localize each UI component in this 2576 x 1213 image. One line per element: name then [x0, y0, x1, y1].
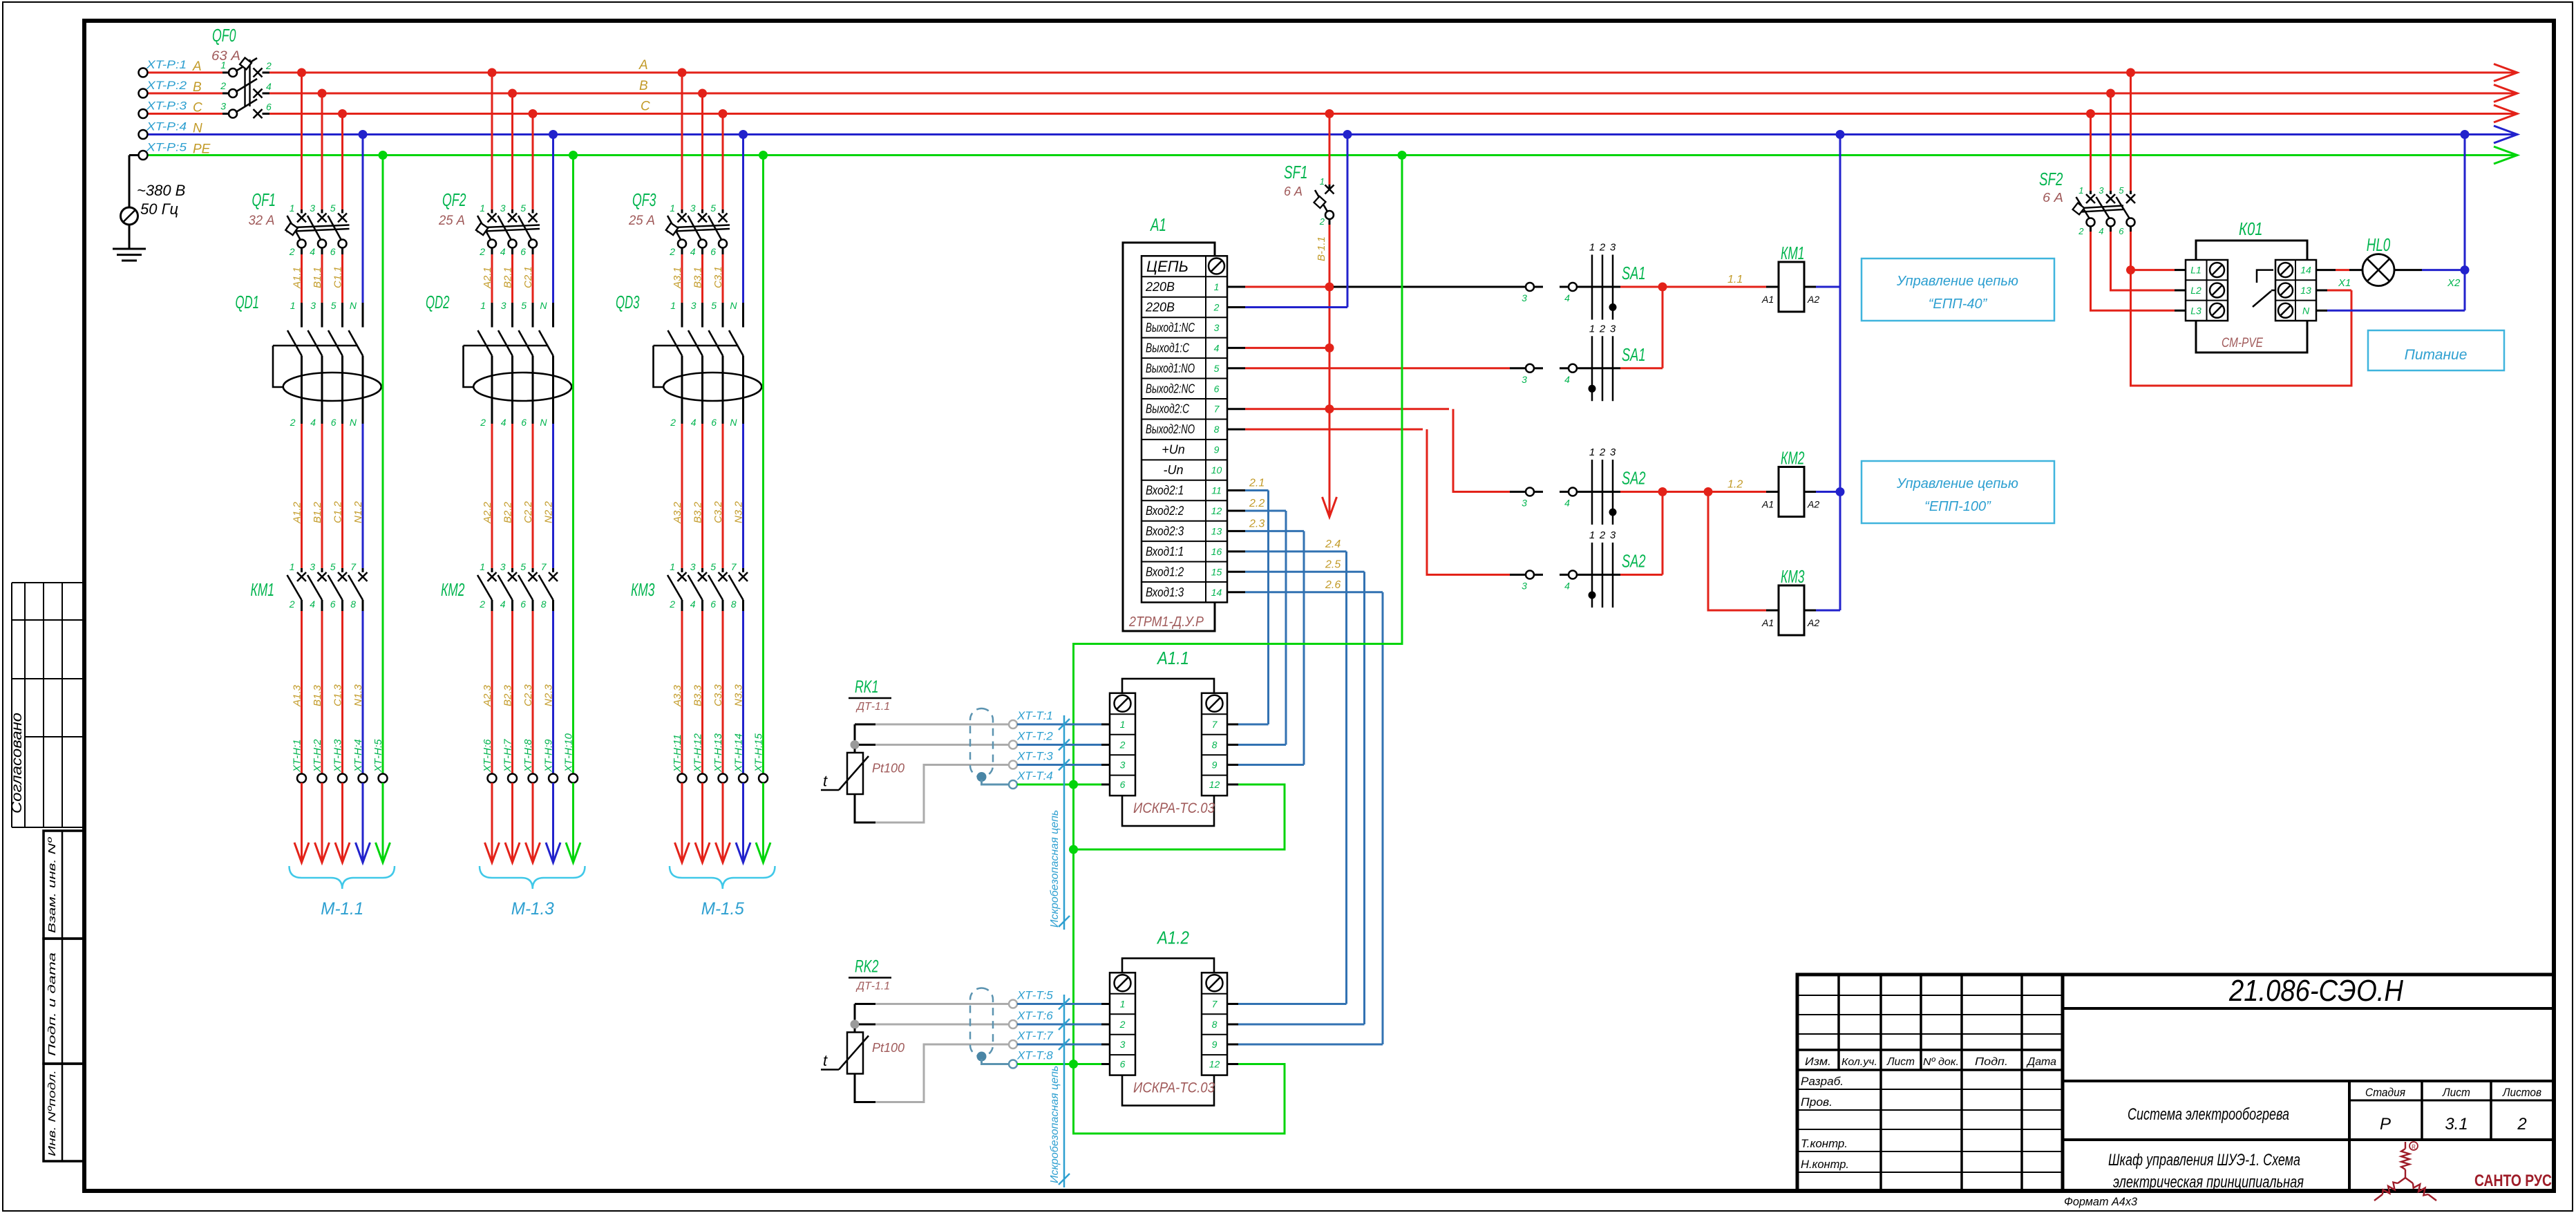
svg-text:ЦЕПЬ: ЦЕПЬ	[1146, 258, 1188, 275]
svg-text:21.086-СЭО.Н: 21.086-СЭО.Н	[2228, 974, 2403, 1008]
svg-text:6: 6	[266, 102, 272, 113]
wire XT-T:1 to module pin 1	[1017, 724, 1101, 726]
junction dot earth / XT-T:8	[1069, 1060, 1078, 1069]
svg-text:25 А: 25 А	[628, 214, 655, 228]
wire RK1 lead 3	[855, 794, 875, 822]
wire QF3 to QD3 (А3.1)	[681, 254, 683, 303]
junction dot HL0/N	[2461, 265, 2470, 274]
wire SA1 row1 to KM1	[1620, 286, 1663, 288]
junction dot KM3 branch	[1704, 487, 1713, 496]
svg-text:2: 2	[2078, 226, 2084, 236]
connector contact 3 (SA2)	[1526, 571, 1534, 579]
svg-text:QD2: QD2	[426, 292, 450, 312]
svg-text:Лист: Лист	[2442, 1086, 2470, 1099]
svg-text:+Un: +Un	[1162, 443, 1185, 457]
svg-text:N: N	[350, 417, 357, 428]
svg-text:Искробезопасная цепь: Искробезопасная цепь	[1049, 1066, 1061, 1183]
contactor contacts KM3	[667, 572, 748, 611]
svg-text:ХТ-Т:6: ХТ-Т:6	[1016, 1009, 1053, 1022]
svg-text:A2: A2	[1807, 294, 1819, 305]
svg-text:К01: К01	[2239, 218, 2263, 239]
module А1.1 left terminals	[1110, 693, 1135, 796]
bus B arrowhead	[2494, 85, 2517, 102]
wire QF1 to QD1 (В1.1)	[321, 254, 323, 303]
svg-text:3: 3	[691, 300, 697, 311]
svg-text:8: 8	[1214, 424, 1220, 435]
svg-text:2.1: 2.1	[1249, 478, 1265, 489]
wire A1 pin1 to SA1	[1227, 286, 1245, 288]
wire QF3 to QD3 (С3.1)	[722, 254, 724, 303]
contactor coil KM2	[1766, 491, 1779, 493]
K01 input terminals L1 L2 L3	[2186, 260, 2228, 321]
svg-text:3: 3	[310, 561, 315, 572]
svg-text:QD3: QD3	[616, 292, 640, 312]
svg-text:4: 4	[500, 599, 506, 610]
junction dots buses QF3 tap	[678, 68, 768, 160]
svg-text:12: 12	[1211, 505, 1222, 516]
pin numbers KM1 contacts	[289, 561, 357, 610]
junction dot PE bus / measuring earth	[1398, 151, 1407, 160]
svg-text:QF1: QF1	[252, 189, 276, 210]
title block frame	[1797, 975, 2554, 1191]
svg-text:3: 3	[1120, 1039, 1126, 1050]
load arrow 4	[356, 843, 370, 863]
contactor coil KM1	[1766, 286, 1779, 288]
svg-text:2.4: 2.4	[1325, 538, 1341, 550]
terminal XT-H:14	[739, 774, 748, 783]
wire A1 pin13 to A1.1 pin9 (2.3)	[1227, 530, 1245, 532]
svg-text:Pt100: Pt100	[872, 1041, 905, 1055]
svg-text:8: 8	[541, 599, 547, 610]
pin numbers QF2	[479, 203, 526, 257]
svg-text:В1.3: В1.3	[312, 684, 323, 706]
wire KM2 to XT-H:6 (А2.3)	[491, 611, 493, 774]
svg-text:5: 5	[710, 203, 716, 214]
svg-text:8: 8	[1212, 740, 1218, 751]
svg-text:N: N	[2302, 305, 2310, 316]
svg-text:А3.2: А3.2	[672, 501, 683, 524]
svg-text:4: 4	[310, 599, 315, 610]
brace group М-1.5	[670, 866, 775, 889]
svg-text:Питание: Питание	[2405, 347, 2468, 363]
svg-text:2: 2	[1119, 740, 1126, 751]
wire A1 pin2 to N bus	[1227, 306, 1245, 308]
svg-text:8: 8	[350, 599, 356, 610]
svg-text:электрическая принципиальная: электрическая принципиальная	[2113, 1173, 2304, 1192]
svg-text:XT-P:3: XT-P:3	[146, 100, 187, 113]
svg-text:А1.1: А1.1	[1156, 648, 1189, 668]
wire bus phase C	[147, 113, 222, 115]
svg-text:Вход1:3: Вход1:3	[1146, 585, 1184, 599]
wire XT-H:11 to load	[681, 783, 683, 861]
wire bus N to QD1	[362, 135, 364, 303]
wire KM3 to XT-H:12 (В3.3)	[701, 611, 703, 774]
svg-text:Х2: Х2	[2447, 277, 2461, 289]
connector contact 4 (SA2)	[1560, 574, 1569, 576]
svg-text:1: 1	[220, 59, 226, 70]
wire branch to KM3	[1708, 492, 1766, 611]
svg-text:XT-P:2: XT-P:2	[146, 79, 187, 92]
svg-text:ХТ-Н:3: ХТ-Н:3	[332, 739, 344, 773]
svg-text:А3.1: А3.1	[672, 267, 683, 289]
wire C bus to SF2 pin1	[2090, 114, 2092, 191]
terminal XT-H:11	[678, 774, 687, 783]
svg-text:3: 3	[1522, 581, 1527, 592]
svg-text:1.2: 1.2	[1727, 479, 1743, 491]
wire bus А to QF1 pin 1	[301, 73, 303, 209]
wire to L1	[2131, 269, 2175, 271]
wire XT-T:8 to module pin 6	[1017, 1063, 1101, 1065]
svg-text:6: 6	[710, 246, 716, 257]
svg-text:QF0: QF0	[212, 25, 236, 46]
svg-text:Н.контр.: Н.контр.	[1801, 1158, 1849, 1171]
wire bus PE to XT-H:15	[762, 156, 764, 774]
wire bus N to QD3	[742, 135, 744, 303]
node labels A B C (mid-run)	[638, 58, 650, 114]
svg-text:3: 3	[501, 300, 506, 311]
terminal XT-T:4	[1009, 780, 1017, 789]
svg-text:Вход1:2: Вход1:2	[1146, 565, 1184, 579]
contactor contacts KM2	[477, 572, 558, 611]
svg-text:Дата: Дата	[2026, 1056, 2056, 1068]
brace group М-1.1	[290, 866, 395, 889]
svg-text:В: В	[193, 80, 202, 95]
svg-text:КМ1: КМ1	[1781, 243, 1805, 263]
terminal XT-H:15	[759, 774, 768, 783]
svg-text:QF2: QF2	[442, 189, 466, 210]
svg-text:3: 3	[310, 300, 316, 311]
svg-text:Система электрообогрева: Система электрообогрева	[2128, 1105, 2289, 1124]
svg-text:Формат А4х3: Формат А4х3	[2064, 1195, 2138, 1208]
terminal XT-H:5	[379, 774, 388, 783]
svg-text:9: 9	[1212, 760, 1218, 771]
svg-text:SA1: SA1	[1622, 344, 1646, 365]
svg-text:3.1: 3.1	[2445, 1115, 2468, 1134]
svg-text:4: 4	[500, 246, 506, 257]
svg-text:1: 1	[1589, 529, 1595, 541]
wire bus PE	[147, 154, 2516, 156]
terminal XT-H:10	[569, 774, 578, 783]
svg-text:2: 2	[289, 246, 295, 257]
svg-text:16: 16	[1211, 546, 1222, 557]
svg-text:4: 4	[1564, 498, 1570, 509]
wire SF2 pin2 to K01 L3	[2091, 232, 2175, 310]
svg-text:4: 4	[310, 246, 315, 257]
wire B bus to SF2 pin3	[2110, 93, 2112, 191]
junction dots buses QF1 tap	[297, 68, 388, 160]
svg-text:Nº док.: Nº док.	[1923, 1056, 1959, 1068]
svg-text:ХТ-Н:1: ХТ-Н:1	[292, 739, 303, 773]
svg-text:В2.1: В2.1	[502, 267, 514, 288]
svg-text:25 А: 25 А	[438, 214, 465, 228]
svg-text:А: А	[192, 59, 202, 74]
svg-text:Листов: Листов	[2502, 1086, 2541, 1099]
wire KM2 to XT-H:9 (N2.3)	[552, 611, 554, 774]
junction dot KM2 coil node	[1836, 487, 1845, 496]
svg-text:КМ1: КМ1	[251, 579, 275, 600]
svg-text:ХТ-Т:8: ХТ-Т:8	[1016, 1049, 1053, 1062]
wire A1 pin11 to A1.1 pin7 (2.1)	[1227, 489, 1245, 491]
svg-text:ИСКРА-ТС.03: ИСКРА-ТС.03	[1133, 800, 1215, 816]
wire QD2 to KM2 (С2.2)	[532, 420, 534, 424]
svg-text:7: 7	[541, 561, 547, 572]
RTD Pt100 (RK2)	[847, 1033, 863, 1074]
svg-text:1: 1	[290, 203, 295, 214]
wire bus PE to XT-H:10	[572, 156, 574, 774]
junction dot SF1/pin1 net	[1325, 283, 1334, 292]
connector contact 4 (SA1)	[1560, 286, 1569, 288]
svg-text:С2.1: С2.1	[522, 266, 534, 288]
pin numbers SF2	[2078, 185, 2124, 236]
svg-text:7: 7	[350, 561, 357, 572]
svg-text:С1.2: С1.2	[332, 501, 344, 523]
wire SF2 pin6 to K01 L1	[2130, 232, 2132, 270]
wire XT-H:6 to load	[491, 783, 493, 861]
junction dot earth / A1.1 loop	[1069, 845, 1078, 854]
wire QD2 to KM2 (В2.2)	[511, 420, 513, 424]
label ~380 В 50 Гц	[137, 182, 185, 218]
svg-text:3: 3	[1522, 374, 1527, 385]
svg-text:ДТ-1.1: ДТ-1.1	[855, 701, 890, 713]
terminal XT-H:8	[529, 774, 538, 783]
svg-text:4: 4	[310, 417, 316, 428]
load arrow 2	[315, 843, 330, 863]
svg-text:2: 2	[290, 417, 296, 428]
svg-text:С3.3: С3.3	[712, 684, 724, 706]
svg-text:6: 6	[710, 599, 716, 610]
svg-text:50 Гц: 50 Гц	[140, 200, 178, 218]
circuit breaker QF0	[222, 58, 269, 118]
wire QF1 to QD1 (С1.1)	[341, 254, 343, 303]
gray junction dot RK2	[851, 1020, 860, 1029]
load arrow 1	[294, 843, 309, 863]
svg-text:N1.3: N1.3	[352, 684, 364, 706]
load arrow 13	[716, 843, 730, 863]
svg-text:L3: L3	[2190, 305, 2201, 316]
wire XT-H:3 to load	[341, 783, 343, 861]
svg-text:5: 5	[520, 203, 526, 214]
svg-text:1.1: 1.1	[1727, 274, 1743, 285]
svg-text:А1.3: А1.3	[292, 684, 303, 707]
svg-text:SA1: SA1	[1622, 263, 1646, 283]
svg-text:t: t	[823, 1052, 828, 1069]
selector switch SA1	[1589, 242, 1617, 320]
svg-text:ХТ-Н:5: ХТ-Н:5	[372, 739, 384, 773]
svg-text:С3.2: С3.2	[712, 501, 724, 523]
svg-text:3: 3	[690, 561, 696, 572]
svg-text:N3.3: N3.3	[733, 684, 745, 706]
svg-text:Изм.: Изм.	[1805, 1056, 1831, 1068]
svg-text:Вход2:2: Вход2:2	[1146, 504, 1184, 518]
svg-text:М-1.1: М-1.1	[321, 899, 363, 919]
terminal XT-H:2	[318, 774, 327, 783]
wire XT-H:8 to load	[532, 783, 534, 861]
RCD QD3	[654, 330, 762, 420]
wire SA2 row2 link up	[1620, 574, 1663, 576]
svg-text:Т.контр.: Т.контр.	[1801, 1137, 1848, 1150]
wire QD1 to KM1 (В1.2)	[321, 420, 323, 424]
wire KM3 to XT-H:14 (N3.3)	[742, 611, 744, 774]
wire KM3 to XT-H:13 (С3.3)	[722, 611, 724, 774]
svg-text:Выход2:NC: Выход2:NC	[1146, 382, 1195, 395]
A1 table rows and pin numbers	[1145, 280, 1222, 599]
terminal XT-H:6	[488, 774, 497, 783]
terminal XT-H:9	[549, 774, 558, 783]
wire SF2 pin4 to K01 L2	[2111, 232, 2175, 290]
svg-text:6: 6	[520, 599, 526, 610]
wire bus N	[147, 133, 2516, 135]
wire bus В to QF1 pin 3	[321, 93, 323, 209]
svg-text:КМ2: КМ2	[441, 579, 465, 600]
svg-text:3: 3	[690, 203, 696, 214]
selector switch SA1	[1589, 323, 1616, 401]
svg-text:2: 2	[479, 246, 485, 257]
svg-text:ХТ-Н:8: ХТ-Н:8	[522, 739, 534, 773]
svg-text:220В: 220В	[1145, 280, 1175, 294]
svg-text:QF3: QF3	[632, 189, 656, 210]
svg-text:1: 1	[2078, 185, 2083, 196]
svg-text:КМ3: КМ3	[631, 579, 655, 600]
svg-text:ХТ-Т:1: ХТ-Т:1	[1016, 709, 1053, 722]
svg-text:А3.3: А3.3	[672, 684, 683, 707]
svg-text:2.2: 2.2	[1249, 498, 1265, 509]
junction dot SF1/pin7 net	[1325, 404, 1334, 413]
info box ЕПП-100	[1862, 461, 2054, 523]
svg-text:В1.2: В1.2	[312, 501, 323, 523]
wire QD3 to KM3 (N3.2)	[742, 420, 744, 424]
svg-text:А1: А1	[1150, 214, 1166, 235]
shield earth dot RK2	[977, 1052, 987, 1062]
svg-text:2: 2	[1213, 301, 1220, 312]
svg-text:8: 8	[1212, 1019, 1218, 1030]
svg-text:5: 5	[521, 300, 527, 311]
svg-text:7: 7	[1214, 404, 1220, 415]
K01 output terminals 14 13 N	[2275, 260, 2316, 321]
svg-text:2: 2	[480, 417, 486, 428]
svg-text:3: 3	[1522, 498, 1527, 509]
wire bus В to QF3 pin 3	[701, 93, 703, 209]
svg-text:XT-P:5: XT-P:5	[146, 141, 187, 154]
module А1.1 right terminals	[1202, 693, 1227, 796]
svg-text:t: t	[823, 773, 828, 790]
terminal XT-H:3	[338, 774, 347, 783]
svg-text:7: 7	[1212, 999, 1218, 1010]
svg-text:В2.2: В2.2	[502, 501, 514, 523]
svg-text:3: 3	[1120, 760, 1126, 771]
load arrow 3	[335, 843, 350, 863]
svg-text:Шкаф управления ШУЭ-1. Схема: Шкаф управления ШУЭ-1. Схема	[2108, 1151, 2300, 1169]
svg-text:“ЕПП-40”: “ЕПП-40”	[1929, 297, 1988, 312]
svg-text:А2.3: А2.3	[482, 684, 493, 707]
svg-text:2: 2	[669, 599, 675, 610]
wire C bus to SF1	[1329, 114, 1331, 185]
K01 internal contact	[2257, 270, 2273, 283]
svg-text:М-1.5: М-1.5	[701, 899, 744, 919]
svg-text:Выход1:NO: Выход1:NO	[1146, 361, 1195, 375]
svg-text:1: 1	[290, 561, 295, 572]
pin numbers QF1	[289, 203, 336, 257]
svg-text:6: 6	[520, 246, 526, 257]
svg-text:В3.1: В3.1	[692, 267, 704, 288]
svg-text:В3.2: В3.2	[692, 501, 704, 523]
svg-text:XT-P:1: XT-P:1	[146, 58, 187, 71]
device A1 outer box	[1123, 243, 1215, 631]
wire bus С to QF1 pin 5	[341, 114, 343, 210]
wire XT-H:10 to load	[572, 783, 574, 861]
intrinsic safety barrier line	[1059, 715, 1070, 930]
wire A1 pin7 to SA2.1	[1227, 408, 1245, 410]
wire A1 pin14 to A1.2 pin9 (2.6)	[1227, 591, 1245, 593]
svg-text:В: В	[639, 79, 648, 93]
pin numbers KM3 contacts	[669, 561, 737, 610]
load arrow 11	[675, 843, 690, 863]
junction dot N bus / lamp circuit	[2461, 130, 2470, 139]
terminal XT-P:1	[139, 68, 148, 77]
svg-text:9: 9	[1214, 444, 1220, 455]
wire RK2 lead 2	[859, 1024, 875, 1026]
wire PE to measuring circuits	[1074, 156, 1403, 1134]
svg-text:1: 1	[290, 300, 296, 311]
svg-text:ХТ-Н:7: ХТ-Н:7	[502, 739, 514, 773]
terminal XT-H:4	[359, 774, 368, 783]
svg-text:4: 4	[690, 246, 696, 257]
wire XT-T:6 to module pin 2	[1017, 1024, 1101, 1026]
wire KM2 to XT-H:7 (В2.3)	[511, 611, 513, 774]
svg-text:ХТ-Н:10: ХТ-Н:10	[563, 733, 575, 773]
wire A1 pin5 to SA1.2	[1227, 367, 1245, 369]
wire QD3 to KM3 (С3.2)	[722, 420, 724, 424]
svg-text:5: 5	[330, 561, 336, 572]
svg-text:-Un: -Un	[1163, 463, 1183, 477]
svg-text:5: 5	[1214, 363, 1220, 374]
svg-text:RK2: RK2	[855, 957, 879, 977]
svg-text:Согласовано: Согласовано	[9, 713, 25, 814]
svg-text:SA2: SA2	[1622, 551, 1646, 572]
svg-text:5: 5	[710, 561, 716, 572]
svg-text:4: 4	[266, 81, 272, 92]
svg-text:N: N	[193, 122, 202, 136]
circuit breaker QF1	[285, 214, 349, 255]
svg-text:КМ3: КМ3	[1781, 566, 1805, 587]
bus PE arrowhead	[2494, 147, 2517, 164]
wire XT-H:12 to load	[701, 783, 703, 861]
svg-text:САНТО РУС: САНТО РУС	[2474, 1172, 2552, 1190]
contactor contacts KM1	[287, 572, 368, 611]
wire QD2 to KM2 (А2.2)	[491, 420, 493, 424]
svg-text:N: N	[730, 300, 737, 311]
svg-text:14: 14	[1211, 587, 1222, 598]
wire RK1 lead 2	[859, 744, 875, 746]
wire bus PE to XT-H:5	[382, 156, 384, 774]
svg-text:ХТ-Н:12: ХТ-Н:12	[692, 733, 704, 773]
wire bus А to QF2 pin 1	[491, 73, 493, 209]
svg-text:2: 2	[1599, 446, 1606, 458]
terminal XT-P:2	[139, 89, 148, 98]
wire source to ground	[129, 225, 131, 249]
svg-text:SF1: SF1	[1284, 162, 1308, 182]
svg-text:Управление цепью: Управление цепью	[1896, 476, 2018, 491]
pin numbers QF0	[220, 59, 272, 113]
wire SA1 row2 link up	[1620, 367, 1663, 369]
wire bus N to QD2	[552, 135, 554, 303]
wire XT-H:15 to load	[762, 783, 764, 861]
svg-text:6 А: 6 А	[1284, 185, 1303, 198]
svg-text:4: 4	[690, 599, 696, 610]
svg-text:3: 3	[500, 203, 506, 214]
svg-text:14: 14	[2300, 265, 2311, 276]
bus N arrowhead	[2494, 126, 2517, 143]
title block role labels	[1801, 1075, 1849, 1171]
